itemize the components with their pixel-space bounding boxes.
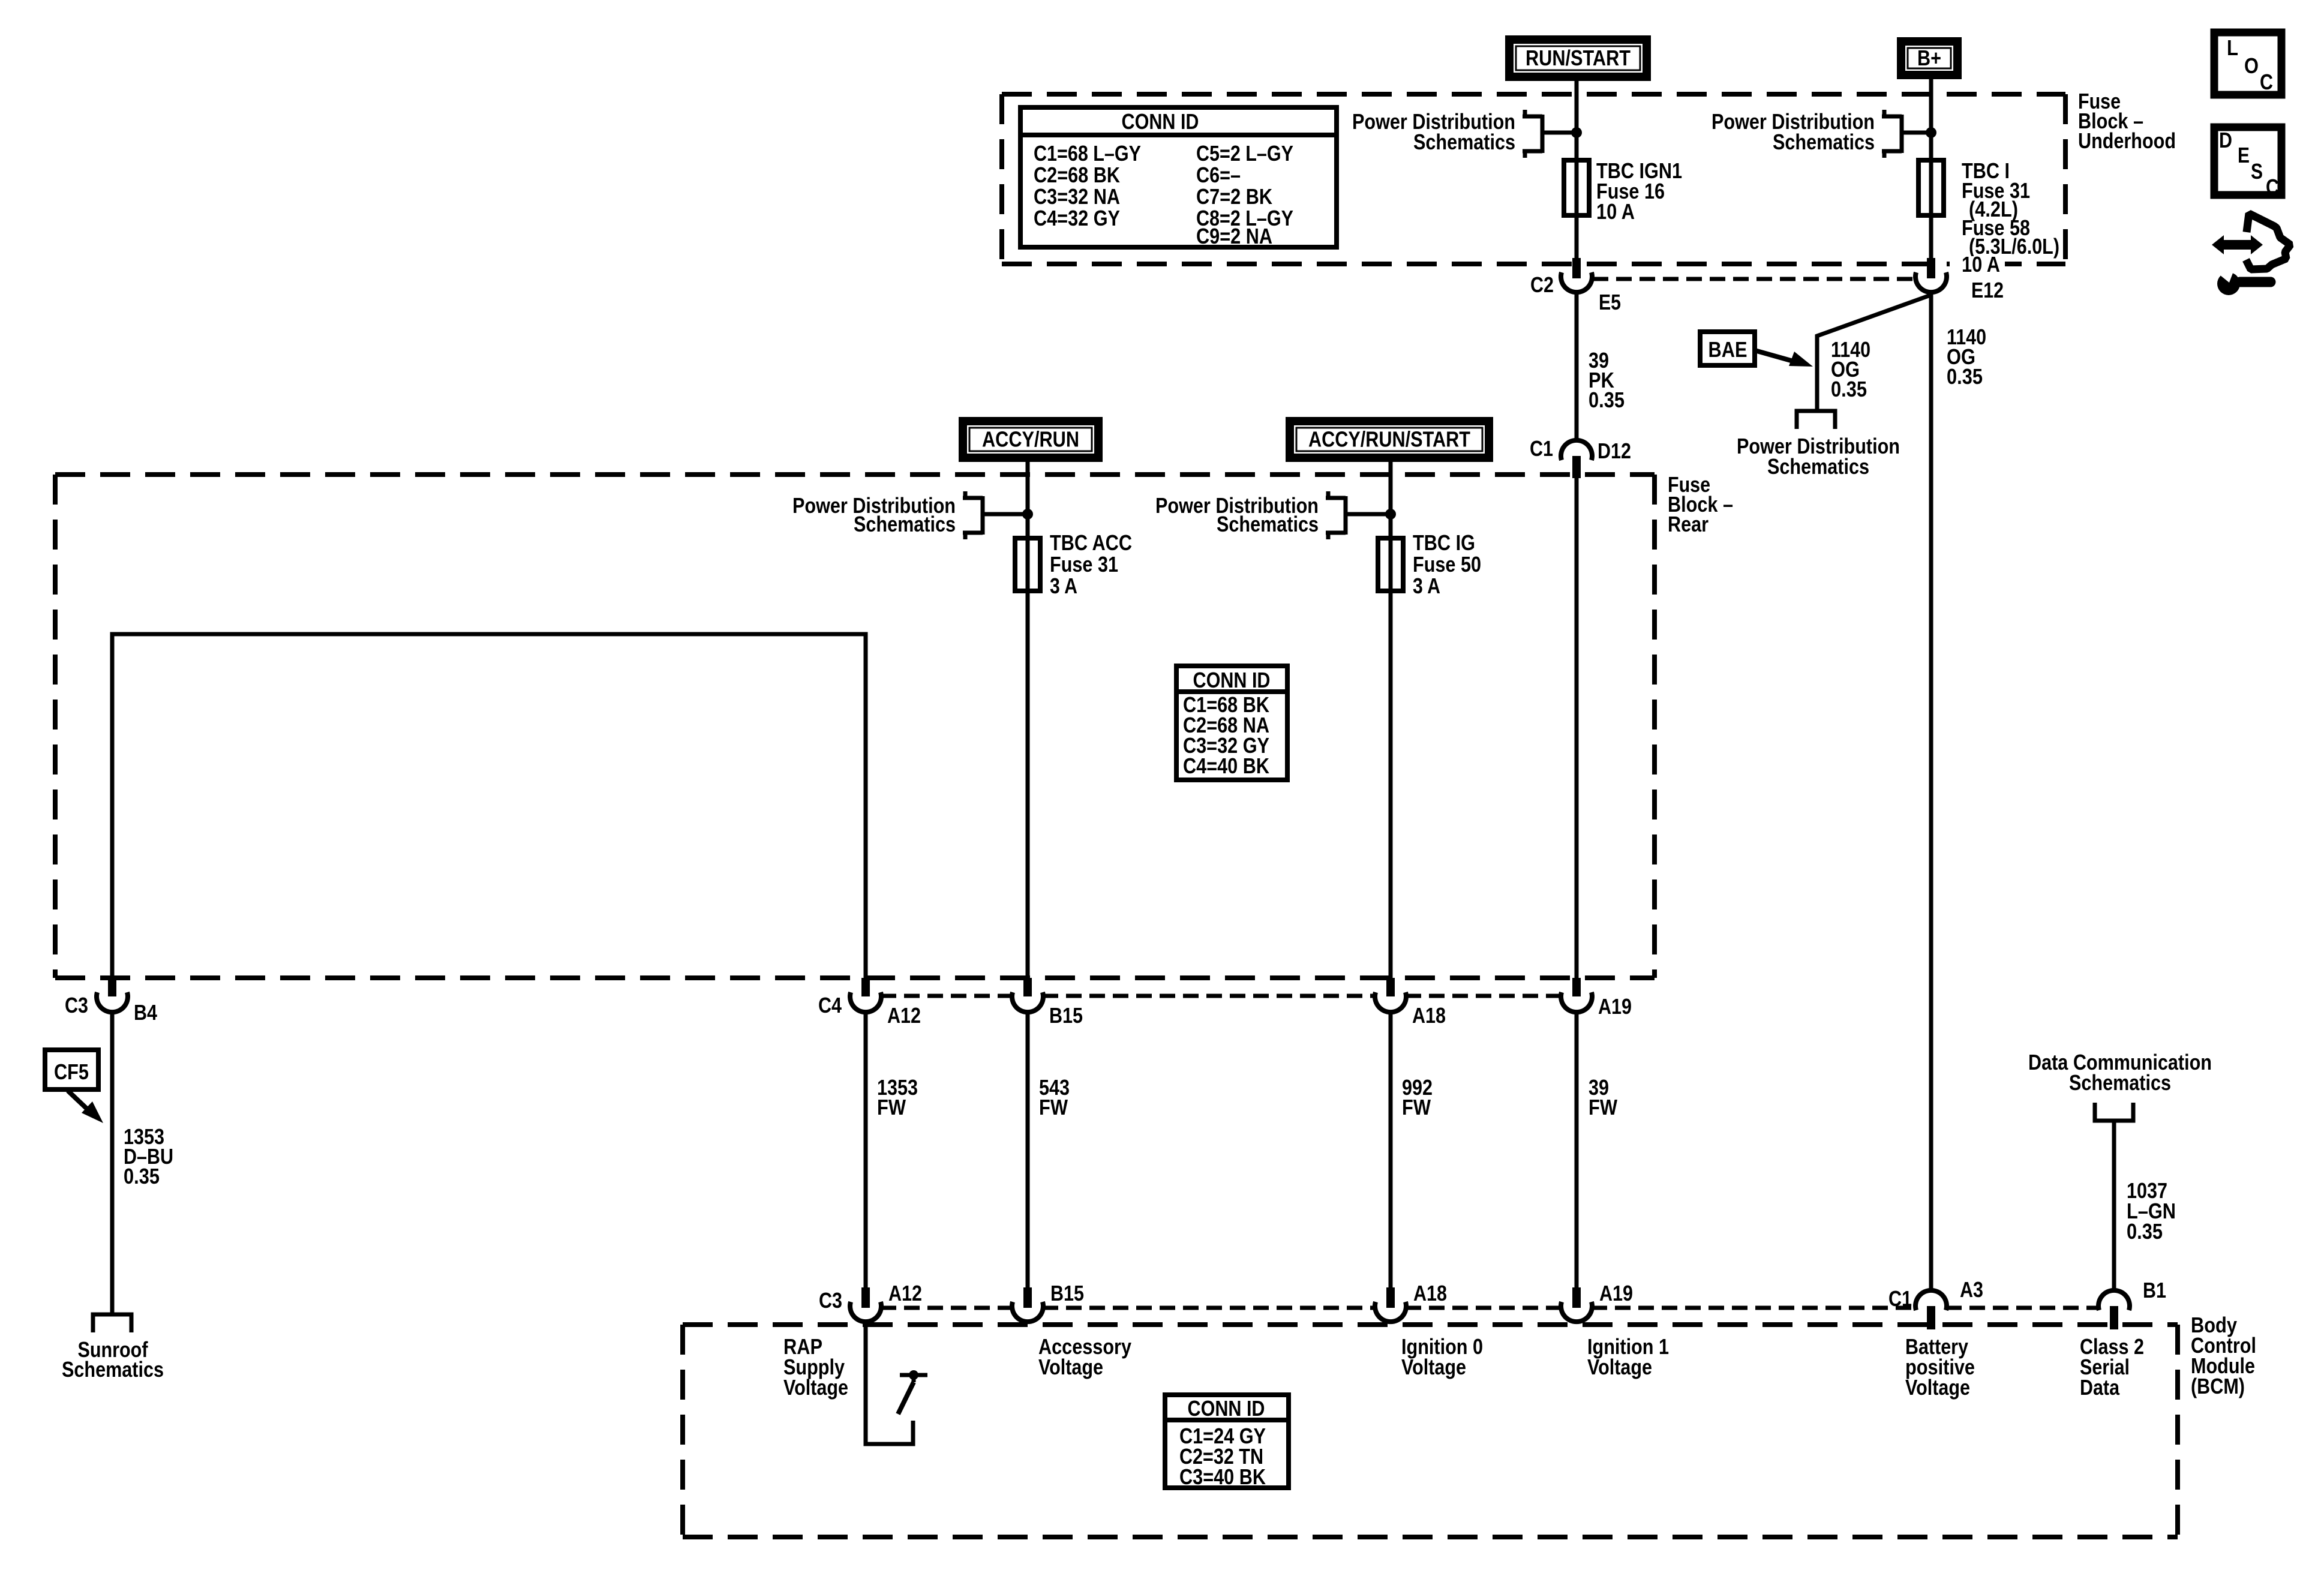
svg-text:0.35: 0.35 (124, 1164, 160, 1188)
svg-text:RUN/START: RUN/START (1526, 46, 1631, 70)
svg-text:C2: C2 (1530, 272, 1554, 297)
connector B4 (rear block bottom) (108, 978, 116, 996)
connector B1 (BCM top) (2098, 1290, 2130, 1310)
svg-text:C1=68 L–GY: C1=68 L–GY (1034, 141, 1141, 166)
connector A12 (rear block bottom) (861, 978, 870, 996)
dotted connector line A12-B15-A18-A19-A3-B1 (BCM row) (881, 1306, 1013, 1310)
off-page symbol Sunroof Schematics (93, 1314, 131, 1332)
svg-text:C3=40 BK: C3=40 BK (1179, 1464, 1266, 1489)
svg-text:0.35: 0.35 (1589, 388, 1625, 412)
connector E12 stub (1927, 258, 1935, 278)
svg-text:Schematics: Schematics (62, 1357, 164, 1382)
junction on B+ wire (1926, 127, 1936, 138)
svg-text:ACCY/RUN: ACCY/RUN (982, 427, 1079, 452)
wire 39 PK 0.35 (C2 to D12) (1575, 292, 1579, 439)
wire 1037 L-GN 0.35 (to B1) (2112, 1122, 2116, 1290)
wire 992 FW (A18 to BCM) (1389, 1012, 1393, 1290)
connector B15 (rear block bottom) (1023, 978, 1032, 996)
reference bracket Power Distribution Schematics (ACCY/RUN/START) (1326, 491, 1391, 539)
fuse TBC IG Fuse 50 3A (1378, 538, 1403, 591)
svg-text:Schematics: Schematics (1217, 512, 1319, 536)
wire 1353 FW (A12 to BCM) (864, 1012, 868, 1290)
junction on ACCY/RUN/START wire (1385, 509, 1396, 520)
svg-text:Voltage: Voltage (1038, 1355, 1103, 1379)
table CONN ID (fuse block rear) (1176, 666, 1287, 780)
svg-text:FW: FW (877, 1095, 906, 1119)
connector C2/E5 stub (1572, 258, 1581, 278)
connector C2/E5 cup (1561, 272, 1592, 292)
svg-text:FW: FW (1402, 1095, 1431, 1119)
dashed box Fuse Block - Underhood (1002, 94, 2065, 264)
dashed box Fuse Block - Rear (55, 475, 1655, 978)
svg-text:FW: FW (1039, 1095, 1068, 1119)
svg-text:CONN ID: CONN ID (1193, 668, 1271, 692)
svg-text:0.35: 0.35 (1831, 377, 1867, 401)
svg-text:A12: A12 (888, 1281, 922, 1305)
wire RAP staple (B4 to A12 inside rear block) (112, 634, 866, 978)
svg-text:L: L (2227, 35, 2238, 60)
power rail box B+ (1901, 41, 1957, 75)
connector C1/D12 dome (1561, 440, 1592, 460)
icon wrench (2217, 272, 2240, 295)
svg-text:Voltage: Voltage (1905, 1375, 1970, 1400)
svg-text:C5=2 L–GY: C5=2 L–GY (1196, 141, 1293, 166)
connector A18 (rear block bottom) (1386, 978, 1395, 996)
svg-text:B4: B4 (134, 1000, 157, 1025)
svg-text:CF5: CF5 (54, 1059, 89, 1084)
fuse TBC ACC Fuse 31 3A (1015, 538, 1040, 591)
RAP switch upper contact (900, 1373, 927, 1377)
svg-text:D: D (2219, 128, 2232, 152)
svg-text:B15: B15 (1049, 1003, 1083, 1028)
table CONN ID (underhood) (1020, 107, 1337, 247)
svg-text:Schematics: Schematics (1767, 454, 1869, 479)
svg-text:C3: C3 (65, 993, 88, 1017)
svg-text:A18: A18 (1412, 1003, 1446, 1028)
svg-text:B1: B1 (2143, 1278, 2166, 1302)
junction on ACCY/RUN wire (1022, 509, 1033, 520)
svg-text:TBC IG: TBC IG (1413, 530, 1475, 555)
svg-text:C2=68 BK: C2=68 BK (1034, 163, 1120, 187)
connector C1/D12 stub (1572, 456, 1581, 478)
svg-text:Schematics: Schematics (1413, 130, 1515, 154)
connector C1/A3 (BCM top) (1915, 1290, 1947, 1310)
wire ACCY/RUN feed (543) (1026, 462, 1030, 978)
dotted connector line A12-B15-A18-A19 (881, 994, 1013, 998)
off-page symbol Data Communication Schematics (2095, 1103, 2133, 1121)
svg-text:C9=2 NA: C9=2 NA (1196, 224, 1272, 248)
svg-text:Voltage: Voltage (1587, 1355, 1652, 1379)
svg-text:ACCY/RUN/START: ACCY/RUN/START (1308, 427, 1470, 452)
off-page symbol Power Distribution Schematics (BAE pigtail) (1797, 411, 1835, 429)
callout arrow BAE (1755, 350, 1797, 362)
power rail box ACCY/RUN/START (1290, 421, 1489, 458)
svg-text:Underhood: Underhood (2078, 128, 2176, 153)
svg-text:C4: C4 (818, 993, 842, 1017)
fuse TBC I Fuse 31/58 10A (1918, 160, 1944, 215)
reference bracket Power Distribution Schematics (ACCY/RUN) (963, 491, 1028, 539)
connector E12 cup (1915, 272, 1947, 292)
svg-text:C6=–: C6=– (1196, 163, 1241, 187)
callout arrow CF5 (68, 1091, 90, 1112)
wire BAE pigtail 1140 OG 0.35 (1817, 295, 1930, 410)
svg-text:Schematics: Schematics (2069, 1070, 2171, 1095)
svg-text:0.35: 0.35 (1947, 364, 1983, 389)
wire 39 FW (A19 to BCM) (1575, 1012, 1579, 1290)
svg-text:A12: A12 (887, 1003, 921, 1028)
svg-text:Voltage: Voltage (783, 1375, 848, 1400)
svg-text:E12: E12 (1971, 278, 2004, 302)
svg-text:Voltage: Voltage (1401, 1355, 1466, 1379)
wire 543 FW (B15 to BCM) (1026, 1012, 1030, 1290)
svg-text:S: S (2251, 159, 2263, 184)
junction on RUN/START wire (1571, 127, 1582, 138)
wire ACCY/RUN/START feed (992) (1389, 462, 1393, 978)
svg-text:D12: D12 (1598, 439, 1631, 463)
svg-text:CONN ID: CONN ID (1122, 109, 1199, 134)
svg-text:3 A: 3 A (1413, 574, 1440, 598)
power rail box ACCY/RUN (963, 421, 1098, 458)
icon box LOC (2214, 32, 2281, 95)
svg-text:BAE: BAE (1709, 337, 1747, 362)
svg-text:Rear: Rear (1668, 512, 1709, 536)
svg-text:FW: FW (1589, 1095, 1617, 1119)
fuse TBC IGN1 Fuse 16 10A (1564, 160, 1589, 215)
icon connector outline (2246, 214, 2290, 269)
svg-text:C1: C1 (1530, 436, 1553, 461)
svg-text:C7=2 BK: C7=2 BK (1196, 184, 1272, 209)
icon double arrow (2212, 235, 2263, 254)
reference bracket Power Distribution Schematics (RUN/START) (1523, 110, 1577, 158)
svg-text:B+: B+ (1917, 46, 1941, 70)
svg-text:A19: A19 (1598, 994, 1632, 1019)
connector B15 (BCM top) (1023, 1287, 1032, 1308)
svg-text:C4=32 GY: C4=32 GY (1034, 206, 1120, 230)
svg-text:Fuse 31: Fuse 31 (1050, 552, 1118, 577)
svg-text:C3=32 NA: C3=32 NA (1034, 184, 1120, 209)
table CONN ID (BCM) (1165, 1395, 1289, 1488)
wire RUN/START feed (39 PK) (1575, 81, 1579, 262)
connector A19 (BCM top) (1572, 1287, 1581, 1308)
svg-text:3 A: 3 A (1050, 574, 1077, 598)
connector A19 (rear block bottom) (1572, 978, 1581, 996)
wire B+ feed (1140 OG) (1929, 79, 1933, 262)
svg-text:10 A: 10 A (1596, 199, 1635, 224)
wire 1140 OG 0.35 (E12 to BCM C1) (1929, 292, 1933, 1290)
RAP switch blade (898, 1382, 914, 1414)
svg-text:C4=40 BK: C4=40 BK (1183, 754, 1269, 778)
callout box BAE (1700, 332, 1755, 365)
svg-text:A18: A18 (1413, 1281, 1447, 1305)
svg-text:A19: A19 (1599, 1281, 1633, 1305)
svg-text:A3: A3 (1960, 1277, 1983, 1302)
reference bracket Power Distribution Schematics (B+) (1882, 110, 1931, 158)
svg-text:Schematics: Schematics (854, 512, 956, 536)
svg-text:0.35: 0.35 (2127, 1219, 2163, 1244)
wire RAP to switch (866, 1322, 913, 1444)
power rail box RUN/START (1509, 40, 1647, 77)
dotted connector line E5-E12 (1593, 277, 1915, 281)
svg-text:E: E (2238, 143, 2250, 167)
svg-text:C3: C3 (819, 1288, 842, 1313)
svg-text:O: O (2244, 53, 2259, 78)
icon box DESC (2214, 127, 2281, 195)
svg-text:C: C (2260, 70, 2273, 94)
wire 39 FW (D12 to A19) (1575, 478, 1579, 978)
svg-text:B15: B15 (1050, 1281, 1084, 1305)
svg-text:CONN ID: CONN ID (1188, 1396, 1265, 1421)
svg-text:10 A: 10 A (1962, 252, 2000, 277)
dashed box Body Control Module (BCM) (683, 1325, 2178, 1537)
svg-text:(BCM): (BCM) (2191, 1374, 2245, 1398)
wire 1353 D-BU 0.35 (B4 to sunroof) (110, 1012, 115, 1313)
svg-text:Schematics: Schematics (1773, 130, 1875, 154)
callout box CF5 (45, 1050, 98, 1089)
svg-text:Data: Data (2080, 1375, 2120, 1400)
connector A12 (BCM top) (861, 1287, 870, 1308)
svg-text:E5: E5 (1599, 290, 1621, 314)
svg-text:Fuse 50: Fuse 50 (1413, 552, 1481, 577)
svg-text:C: C (2266, 175, 2279, 199)
connector A18 (BCM top) (1386, 1287, 1395, 1308)
svg-text:TBC ACC: TBC ACC (1050, 530, 1132, 555)
